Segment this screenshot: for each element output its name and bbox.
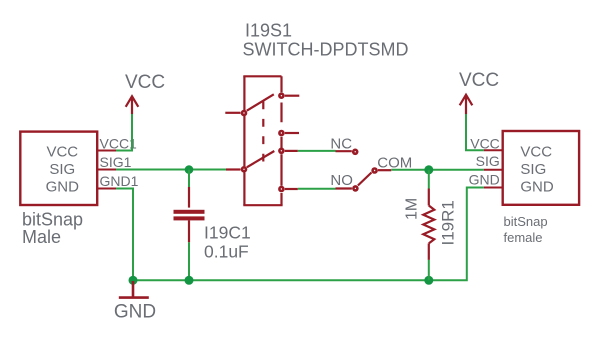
junction capacitor rail: [185, 276, 194, 285]
junction at capacitor tap: [185, 165, 194, 174]
svg-text:SIG: SIG: [476, 153, 500, 169]
switch S1 throw1 stub: [285, 95, 300, 97]
switch S1 throw contact 3: [278, 148, 285, 155]
NC pin stub from throw3: [285, 150, 298, 152]
switch S1 frame top: [243, 75, 281, 77]
NC terminal stub: [336, 150, 352, 152]
pin SIG right stub: [484, 169, 503, 171]
NO pin stub from throw4: [285, 188, 298, 190]
switch S1 throw contact 2: [278, 130, 285, 137]
svg-text:GND: GND: [46, 179, 80, 196]
svg-text:GND1: GND1: [100, 173, 139, 189]
pin VCC1 stub: [97, 150, 116, 152]
wire resistor to ground rail: [428, 260, 430, 280]
wire capacitor to ground rail: [188, 242, 190, 280]
switch S1 pole1 pin stub: [225, 112, 240, 114]
capacitor C1 top lead: [188, 187, 190, 208]
switch S1 right column segments: [280, 76, 282, 205]
svg-text:GND: GND: [114, 302, 156, 323]
svg-text:VCC: VCC: [470, 136, 500, 152]
svg-text:GND: GND: [520, 179, 554, 196]
svg-text:SWITCH-DPDTSMD: SWITCH-DPDTSMD: [243, 40, 409, 60]
capacitor I19C1 plates: [174, 210, 205, 221]
NO terminal stub: [336, 187, 352, 189]
switch S1 throw2 stub: [285, 132, 299, 134]
capacitor C1 bottom lead: [188, 220, 190, 242]
switch S1 frame left vertical: [243, 76, 245, 205]
ground symbol GND: [119, 281, 149, 298]
svg-text:I19C1: I19C1: [204, 223, 251, 243]
switch S1 frame bottom: [243, 204, 282, 206]
svg-text:0.1uF: 0.1uF: [204, 242, 249, 262]
svg-text:I19S1: I19S1: [245, 21, 292, 41]
svg-text:SIG: SIG: [520, 161, 546, 178]
supply symbol VCC right: [460, 95, 473, 114]
pin GND1 stub: [97, 188, 116, 190]
COM stub: [378, 169, 391, 171]
switch S1 throw contact 4: [278, 186, 285, 193]
svg-text:Male: Male: [22, 227, 61, 247]
junction resistor rail: [424, 276, 433, 285]
junction resistor top: [424, 165, 433, 174]
junction GND symbol: [129, 276, 138, 285]
wire junction to resistor: [428, 170, 430, 189]
svg-text:1M: 1M: [403, 198, 420, 220]
NO terminal contact: [352, 185, 359, 192]
switch S1 throw contact 1: [278, 92, 285, 99]
switch S1 pole2 pin stub: [226, 168, 241, 170]
wire NC: [298, 150, 336, 152]
wire NO: [298, 188, 336, 190]
wire SIG1 to switch pole: [116, 169, 226, 171]
bitSnap female box: [503, 131, 579, 205]
svg-text:I19R1: I19R1: [439, 200, 458, 245]
switch S1 pole1 contact: [241, 110, 248, 117]
svg-text:GND: GND: [469, 171, 500, 187]
pin VCC right stub: [484, 149, 503, 151]
svg-text:VCC: VCC: [125, 72, 165, 93]
switch S1 pole2 contact: [241, 166, 248, 173]
resistor R1 bottom lead: [428, 243, 430, 260]
switch S1 mechanical link dashed: [262, 102, 264, 162]
wire GND1 down: [116, 189, 133, 281]
svg-text:VCC: VCC: [520, 143, 552, 160]
pin SIG1 stub: [97, 169, 116, 171]
supply symbol VCC right wire: [466, 114, 484, 150]
wire COM to SIG pin: [391, 169, 484, 171]
svg-text:SIG1: SIG1: [100, 154, 132, 170]
switch S1 lever pole2: [247, 151, 274, 167]
supply symbol VCC left: [126, 96, 139, 114]
COM contact: [371, 167, 378, 174]
svg-text:NC: NC: [330, 136, 352, 153]
svg-text:COM: COM: [377, 154, 412, 171]
svg-text:bitSnap: bitSnap: [504, 214, 548, 229]
svg-text:VCC: VCC: [46, 143, 78, 160]
resistor R1 top lead: [428, 189, 430, 206]
svg-text:NO: NO: [330, 172, 353, 189]
svg-text:VCC: VCC: [459, 70, 499, 91]
wire junction down to capacitor: [188, 170, 190, 187]
ground rail wire: [133, 188, 484, 281]
switch S1 lever pole1: [247, 94, 274, 110]
resistor I19R1 zigzag: [423, 206, 434, 244]
NC terminal contact: [352, 149, 359, 156]
svg-text:female: female: [504, 230, 543, 245]
pin GND right stub: [484, 187, 503, 189]
COM lever: [358, 173, 372, 186]
wire VCC1 to supply: [116, 114, 132, 151]
svg-text:SIG: SIG: [49, 161, 75, 178]
bitSnap Male box U-left: [20, 132, 97, 205]
